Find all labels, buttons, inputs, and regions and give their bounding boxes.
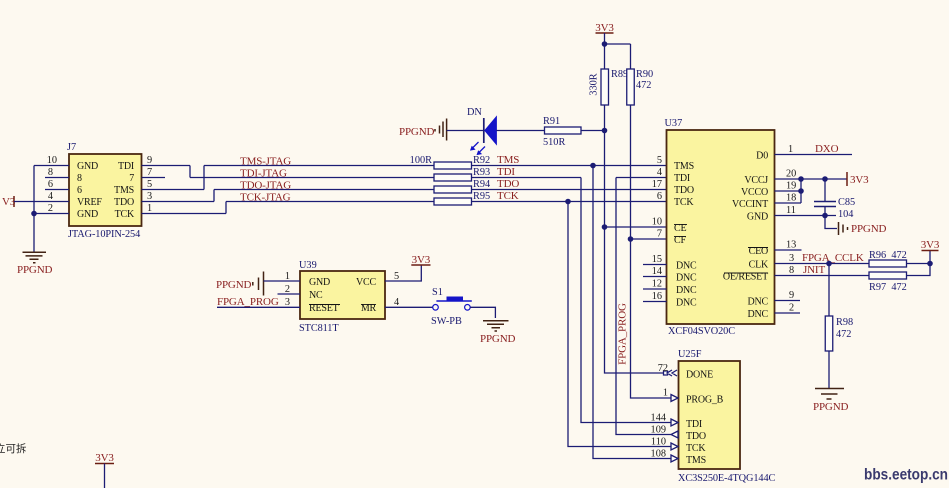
svg-text:16: 16 — [652, 291, 662, 302]
svg-text:TCK: TCK — [497, 190, 519, 202]
svg-text:R90: R90 — [636, 69, 653, 80]
inside label CEO — [748, 246, 768, 257]
pin numbers 9 2 — [789, 290, 794, 314]
FPGA U25F body — [679, 361, 741, 469]
svg-text:18: 18 — [786, 193, 796, 204]
svg-text:DNC: DNC — [747, 297, 768, 308]
svg-text:TMS: TMS — [114, 185, 134, 196]
wire 3V3 to R89 — [604, 44, 606, 69]
svg-text:11: 11 — [786, 205, 796, 216]
svg-text:VREF: VREF — [77, 197, 102, 208]
svg-text:S1: S1 — [432, 287, 443, 298]
svg-text:6: 6 — [48, 179, 53, 190]
svg-text:NC: NC — [309, 290, 323, 301]
svg-text:20: 20 — [786, 169, 796, 180]
wire LED to R91 — [496, 130, 544, 132]
J7 pin 2 wire — [34, 213, 69, 215]
resistor R96 — [869, 260, 907, 267]
power port 3V3 right — [921, 239, 940, 264]
junction GND cap — [822, 213, 828, 219]
wire FPGA_PROG net R90 leg down to U25F pin 1 — [631, 105, 672, 398]
svg-text:TMS: TMS — [686, 455, 706, 466]
inside label OE/RESET — [723, 272, 768, 283]
wire pin 19 — [775, 190, 802, 192]
svg-text:PPGND: PPGND — [480, 333, 516, 345]
svg-text:DN: DN — [467, 107, 482, 118]
LED DN — [470, 117, 496, 155]
svg-text:R94: R94 — [473, 179, 490, 190]
svg-text:8: 8 — [77, 173, 82, 184]
J7 pin 9 stub — [142, 165, 191, 167]
svg-text:3V3: 3V3 — [921, 239, 940, 251]
svg-text:SW-PB: SW-PB — [431, 316, 462, 327]
wire R90 drop — [630, 44, 632, 69]
svg-text:7: 7 — [147, 167, 152, 178]
svg-text:PPGND: PPGND — [813, 401, 849, 413]
J7 inside labels left — [77, 161, 102, 220]
svg-text:2: 2 — [285, 284, 290, 295]
wire U25F TDO to U37 TDI — [616, 177, 667, 179]
J7 pin 6 stub — [45, 189, 69, 191]
power port 3V3 bottom left — [95, 452, 114, 488]
wire TCK-JTAG — [226, 201, 434, 203]
pin numbers 20 19 18 11 — [786, 169, 796, 217]
pin 144 glyph — [671, 419, 678, 426]
wire jog TDO — [213, 190, 215, 202]
svg-text:R92: R92 — [473, 155, 490, 166]
wire 3V3 branch to R90 — [605, 43, 631, 45]
svg-text:R95: R95 — [473, 191, 490, 202]
svg-text:TCK: TCK — [115, 209, 135, 220]
U39 inside labels right — [356, 277, 376, 314]
wire J7 ground vertical — [33, 166, 35, 253]
svg-text:10: 10 — [652, 217, 662, 228]
wire TDO-JTAG — [214, 189, 434, 191]
svg-text:R89: R89 — [611, 69, 628, 80]
svg-text:510R: 510R — [543, 137, 565, 148]
svg-text:TMS: TMS — [674, 161, 694, 172]
svg-text:CLK: CLK — [749, 260, 769, 271]
wire R97 to 3V3 — [907, 264, 931, 276]
junction CF tap — [628, 236, 634, 242]
svg-text:2: 2 — [48, 203, 53, 214]
U37 left pin numbers — [652, 155, 662, 302]
power port V3 — [2, 196, 16, 208]
svg-text:3V3: 3V3 — [412, 254, 431, 266]
J7 left pin numbers — [47, 155, 57, 214]
svg-text:17: 17 — [652, 179, 662, 190]
svg-text:19: 19 — [786, 181, 796, 192]
svg-text:PROG_B: PROG_B — [686, 395, 724, 406]
svg-text:JNIT: JNIT — [803, 264, 825, 276]
wire R98 to ground — [828, 351, 830, 388]
U39 right pin numbers — [394, 271, 399, 308]
resistor R98 — [825, 316, 833, 351]
J7 pin 8 stub — [45, 177, 69, 179]
resistor R95 — [434, 198, 472, 205]
capacitor C85 — [814, 179, 836, 216]
wire TCK tap down to U25F pin 110 — [568, 202, 671, 447]
svg-text:U37: U37 — [665, 118, 683, 129]
svg-text:TMS: TMS — [497, 154, 519, 166]
wire R96 to 3V3 — [907, 263, 931, 265]
junction VCCJ — [798, 176, 804, 182]
wire V3 to pin 4 — [14, 201, 69, 203]
svg-text:TCK: TCK — [686, 443, 706, 454]
svg-text:3: 3 — [147, 191, 152, 202]
resistor R93 — [434, 174, 472, 181]
svg-text:TDI: TDI — [686, 419, 702, 430]
svg-text:DNC: DNC — [747, 309, 768, 320]
wire PPGND to U39 pin 1 — [264, 280, 301, 282]
svg-text:STC811T: STC811T — [299, 323, 339, 334]
svg-text:100R: 100R — [410, 155, 432, 166]
overline MR — [361, 304, 376, 306]
J7 right pin numbers — [147, 155, 152, 214]
ground PPGND at C85 — [825, 216, 887, 236]
svg-text:5: 5 — [657, 155, 662, 166]
junction 3V3 split — [602, 41, 608, 47]
wire TDI-JTAG to bend — [472, 177, 582, 179]
wire DONE net R89 leg down to U25F pin 72 — [605, 105, 672, 373]
svg-text:3V3: 3V3 — [595, 22, 614, 34]
svg-text:DNC: DNC — [676, 261, 697, 272]
svg-text:2: 2 — [789, 303, 794, 314]
svg-text:VCCINT: VCCINT — [732, 199, 768, 210]
svg-text:DONE: DONE — [686, 370, 713, 381]
U39 inside labels — [309, 277, 339, 314]
wire CCLK to R98 — [828, 264, 830, 317]
wire pin 20 to 3V3 — [775, 178, 848, 180]
svg-text:FPGA_CCLK: FPGA_CCLK — [802, 252, 864, 264]
svg-text:XC3S250E-4TQG144C: XC3S250E-4TQG144C — [678, 473, 775, 484]
svg-text:10: 10 — [47, 155, 57, 166]
svg-text:J7: J7 — [67, 142, 76, 153]
ground PPGND at J7 — [17, 252, 53, 276]
U37 right inside labels VCC — [732, 175, 768, 223]
pin 1 glyph — [671, 395, 678, 402]
overline RESET — [309, 304, 340, 306]
svg-text:R98: R98 — [836, 317, 853, 328]
svg-text:GND: GND — [77, 209, 98, 220]
svg-text:JTAG-10PIN-254: JTAG-10PIN-254 — [68, 229, 140, 240]
svg-text:9: 9 — [789, 290, 794, 301]
connector J7 body — [69, 154, 142, 226]
resistor R89 — [601, 69, 609, 105]
inside labels DNC right — [747, 297, 768, 321]
svg-text:PPGND: PPGND — [399, 126, 435, 138]
svg-text:bbs.eetop.cn: bbs.eetop.cn — [864, 467, 948, 484]
svg-text:TDO: TDO — [114, 197, 134, 208]
svg-text:VCCO: VCCO — [741, 187, 768, 198]
wire jog TDI — [189, 166, 191, 178]
svg-text:1: 1 — [147, 203, 152, 214]
svg-text:立可拆: 立可拆 — [0, 442, 27, 455]
svg-text:TDO: TDO — [497, 178, 519, 190]
svg-text:3: 3 — [285, 297, 290, 308]
resistor R90 — [627, 69, 635, 105]
svg-text:VCC: VCC — [356, 277, 376, 288]
wire pin 18 — [775, 202, 802, 204]
wire TDI-JTAG — [190, 177, 434, 179]
svg-text:R96 472: R96 472 — [869, 250, 907, 261]
ground PPGND at R98 — [813, 389, 849, 414]
junction TMS tap — [590, 163, 596, 169]
wire vcc bus vertical — [800, 179, 802, 203]
wire switch to ground — [470, 307, 495, 318]
svg-text:PPGND: PPGND — [216, 279, 252, 291]
wire FPGA_PROG to U39 pin 3 — [217, 306, 300, 308]
ground PPGND at LED — [399, 119, 447, 141]
svg-text:U39: U39 — [299, 260, 317, 271]
ground PPGND at S1 — [480, 321, 516, 345]
ground PPGND at U39 — [216, 272, 264, 296]
svg-text:5: 5 — [147, 179, 152, 190]
U37 DNC stubs right — [775, 301, 801, 314]
svg-text:C85: C85 — [838, 197, 855, 208]
wire U39 VCC to 3V3 — [385, 265, 421, 281]
U25F inside labels — [686, 370, 724, 467]
junction 3V3 right — [927, 261, 933, 267]
wire R91 to DONE net — [581, 130, 605, 132]
svg-text:R93: R93 — [473, 167, 490, 178]
svg-text:FPGA_PROG: FPGA_PROG — [617, 303, 629, 365]
svg-text:472: 472 — [636, 80, 651, 91]
svg-text:3V3: 3V3 — [95, 452, 114, 464]
svg-text:TDI: TDI — [118, 161, 134, 172]
svg-text:15: 15 — [652, 254, 662, 265]
junction cap top — [822, 176, 828, 182]
wire TDI-JTAG down to U25F pin 144 — [581, 178, 671, 423]
J7 pin 7 stub — [142, 177, 166, 179]
svg-text:DNC: DNC — [676, 285, 697, 296]
svg-text:DXO: DXO — [815, 143, 839, 155]
svg-text:3: 3 — [789, 253, 794, 264]
U37 DNC stubs left — [643, 265, 667, 302]
J7 inside labels right — [114, 161, 135, 220]
svg-text:R91: R91 — [543, 116, 560, 127]
svg-text:FPGA_PROG: FPGA_PROG — [217, 296, 279, 308]
svg-text:4: 4 — [394, 297, 399, 308]
svg-text:14: 14 — [652, 266, 662, 277]
resistor R91 — [545, 127, 582, 134]
svg-text:TDI: TDI — [497, 166, 515, 178]
svg-text:GND: GND — [747, 212, 768, 223]
svg-text:104: 104 — [838, 209, 853, 220]
pin 72 glyph — [664, 370, 678, 376]
IC U39 body — [300, 271, 385, 319]
wire pin 11 GND — [775, 215, 837, 217]
junction J7 pin 2 — [31, 211, 37, 217]
svg-text:R97 472: R97 472 — [869, 282, 907, 293]
IC U37 body — [667, 130, 775, 324]
svg-text:472: 472 — [836, 329, 851, 340]
wire U39 MR to switch — [385, 306, 433, 308]
U37 pin 1 D0 wire DXO — [775, 154, 853, 156]
U25F pin numbers — [651, 363, 668, 460]
svg-text:U25F: U25F — [678, 349, 702, 360]
U39 pin 2 stub — [278, 293, 301, 295]
junction TCK tap — [565, 199, 571, 205]
svg-text:PPGND: PPGND — [851, 223, 887, 235]
svg-text:8: 8 — [789, 265, 794, 276]
svg-text:3V3: 3V3 — [850, 174, 869, 186]
overline CF — [674, 236, 686, 238]
wire TDO to U37 pin 17 — [472, 189, 667, 191]
svg-text:110: 110 — [651, 437, 666, 448]
pin 110 glyph — [671, 443, 678, 450]
svg-text:1: 1 — [788, 144, 793, 155]
U37 pin 3 CLK wire — [775, 263, 870, 265]
svg-text:4: 4 — [48, 191, 53, 202]
pin 108 glyph — [671, 455, 678, 462]
svg-text:PPGND: PPGND — [17, 264, 53, 276]
junction VCCO — [798, 188, 804, 194]
svg-text:GND: GND — [77, 161, 98, 172]
U37 left inside labels — [674, 161, 697, 309]
svg-text:TDO: TDO — [674, 185, 694, 196]
wire CE to U37 pin 10 — [605, 226, 667, 228]
J7 pin 1 stub — [142, 213, 227, 215]
svg-text:GND: GND — [309, 277, 330, 288]
U37 pin 13 CEO stub — [775, 249, 802, 251]
power port 3V3 at VCCJ — [847, 172, 869, 186]
wire CF to U37 pin 7 — [631, 238, 667, 240]
svg-text:TCK: TCK — [674, 197, 694, 208]
pin 109 glyph — [671, 431, 678, 438]
svg-text:13: 13 — [786, 240, 796, 251]
U39 left pin numbers — [285, 271, 290, 308]
junction LED tap — [602, 128, 608, 134]
junction CE tap — [602, 224, 608, 230]
resistor R92 — [434, 162, 472, 169]
wire U37 TDI down to U25F pin 109 — [616, 178, 671, 435]
svg-text:109: 109 — [651, 425, 666, 436]
svg-text:VCCJ: VCCJ — [744, 175, 768, 186]
svg-text:DNC: DNC — [676, 273, 697, 284]
power port 3V3 top — [595, 22, 614, 44]
svg-text:XCF04SVO20C: XCF04SVO20C — [668, 326, 735, 337]
wire TMS tap down to U25F pin 108 — [593, 166, 671, 459]
svg-text:72: 72 — [658, 363, 668, 374]
wire TMS to U37 pin 5 — [472, 165, 667, 167]
junction CCLK R98 — [826, 261, 832, 267]
U37 pin 8 OE/RESET wire — [775, 275, 870, 277]
svg-text:7: 7 — [657, 229, 662, 240]
power port 3V3 at U39 — [411, 254, 430, 266]
J7 pin 10 wire — [34, 165, 69, 167]
resistor R94 — [434, 186, 472, 193]
svg-text:9: 9 — [147, 155, 152, 166]
wire jog TCK — [225, 202, 227, 214]
svg-text:7: 7 — [129, 173, 134, 184]
svg-text:1: 1 — [663, 388, 668, 399]
svg-text:TDI: TDI — [674, 173, 690, 184]
svg-text:8: 8 — [48, 167, 53, 178]
svg-text:6: 6 — [77, 185, 82, 196]
svg-text:4: 4 — [657, 167, 662, 178]
wire TMS-JTAG — [204, 165, 434, 167]
svg-text:12: 12 — [652, 279, 662, 290]
svg-text:6: 6 — [657, 191, 662, 202]
svg-text:D0: D0 — [756, 151, 768, 162]
J7 pin 5 stub — [142, 189, 205, 191]
switch S1 — [433, 297, 472, 311]
J7 pin 3 stub — [142, 201, 215, 203]
svg-text:330R: 330R — [589, 73, 600, 95]
wire jog TMS — [203, 166, 205, 190]
overline CE — [674, 224, 687, 226]
svg-text:108: 108 — [651, 449, 666, 460]
svg-text:TDO: TDO — [686, 431, 706, 442]
svg-text:1: 1 — [285, 271, 290, 282]
wire ground to LED — [447, 130, 484, 132]
resistor R97 — [869, 272, 907, 279]
svg-text:DNC: DNC — [676, 298, 697, 309]
wire TCK to U37 pin 6 — [472, 201, 667, 203]
svg-text:144: 144 — [651, 413, 666, 424]
